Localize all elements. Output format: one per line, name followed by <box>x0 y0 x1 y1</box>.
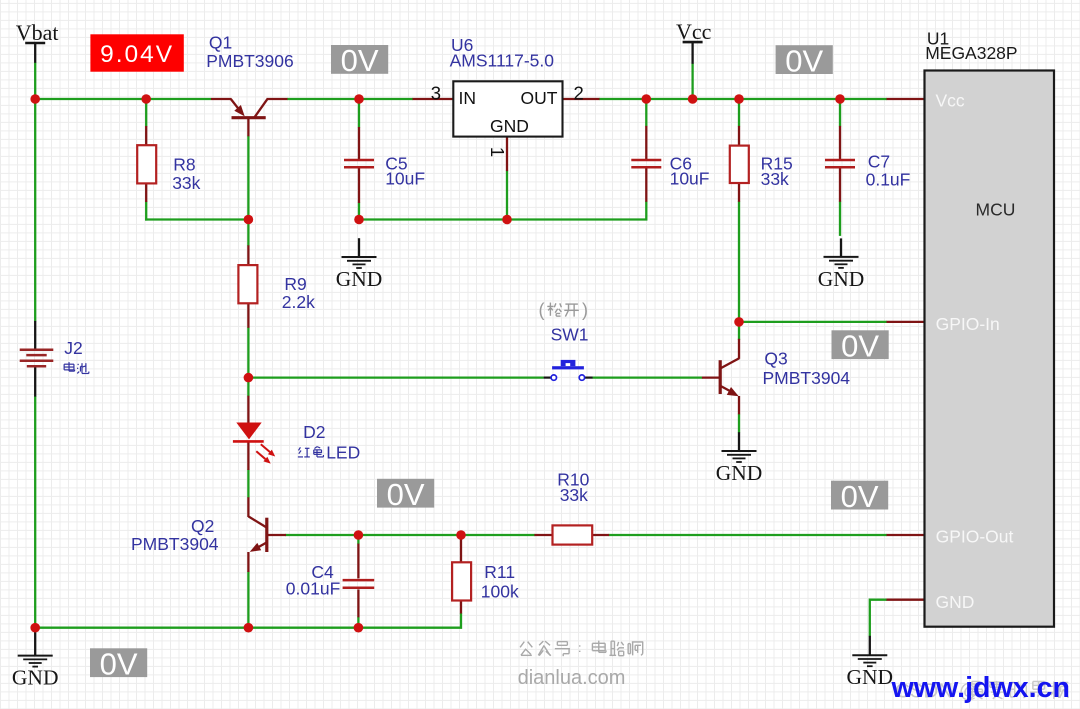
svg-text:IN: IN <box>459 88 477 108</box>
svg-text:OUT: OUT <box>521 88 558 108</box>
svg-text:Vcc: Vcc <box>676 19 712 44</box>
svg-text:GND: GND <box>12 666 59 690</box>
svg-text:10uF: 10uF <box>385 169 425 189</box>
svg-text:C7: C7 <box>868 152 890 172</box>
svg-text:SW1: SW1 <box>551 325 589 345</box>
svg-text:GND: GND <box>818 267 865 291</box>
svg-text:PMBT3904: PMBT3904 <box>763 368 851 388</box>
svg-text:0.1uF: 0.1uF <box>866 170 911 190</box>
svg-text:0V: 0V <box>341 43 379 78</box>
svg-text:GND: GND <box>336 267 383 291</box>
svg-text:R11: R11 <box>484 562 515 582</box>
svg-text:Q2: Q2 <box>191 516 214 536</box>
svg-text:PMBT3904: PMBT3904 <box>131 534 219 554</box>
svg-text:Q1: Q1 <box>209 32 232 52</box>
svg-text:GND: GND <box>490 116 529 136</box>
svg-text:0V: 0V <box>387 477 425 512</box>
svg-text:GPIO-Out: GPIO-Out <box>936 526 1014 546</box>
svg-text:GND: GND <box>847 665 894 689</box>
svg-text:J2: J2 <box>64 338 82 358</box>
svg-text:dianlua.com: dianlua.com <box>518 667 626 689</box>
svg-text:3: 3 <box>431 82 441 103</box>
svg-text:2: 2 <box>574 82 584 103</box>
svg-text:D2: D2 <box>303 422 325 442</box>
svg-text:0V: 0V <box>100 647 138 682</box>
svg-text:0V: 0V <box>841 479 879 514</box>
svg-text:33k: 33k <box>761 169 789 189</box>
svg-text:GND: GND <box>936 592 975 612</box>
svg-text:LED: LED <box>326 442 360 462</box>
svg-text:33k: 33k <box>172 173 200 193</box>
svg-text:AMS1117-5.0: AMS1117-5.0 <box>450 51 555 71</box>
svg-text:): ) <box>582 300 588 320</box>
svg-text:Vcc: Vcc <box>936 90 965 110</box>
svg-text:GND: GND <box>716 461 763 485</box>
svg-text:10uF: 10uF <box>670 169 710 189</box>
svg-text:2.2k: 2.2k <box>282 292 315 312</box>
svg-text:1: 1 <box>487 147 508 157</box>
svg-text:R8: R8 <box>173 155 195 175</box>
svg-text:33k: 33k <box>560 485 588 505</box>
svg-text:100k: 100k <box>481 581 519 601</box>
svg-text:Q3: Q3 <box>764 349 787 369</box>
svg-text:GPIO-In: GPIO-In <box>936 314 1000 334</box>
svg-text:9.04V: 9.04V <box>100 41 174 68</box>
svg-text:www.jdwx.cn: www.jdwx.cn <box>891 672 1070 704</box>
svg-text:(: ( <box>539 300 545 320</box>
svg-text:MCU: MCU <box>976 200 1016 220</box>
svg-text:PMBT3906: PMBT3906 <box>206 51 294 71</box>
svg-text:0V: 0V <box>785 43 823 78</box>
svg-text:0.01uF: 0.01uF <box>286 578 340 598</box>
svg-text:0V: 0V <box>841 329 879 364</box>
svg-text:Vbat: Vbat <box>16 20 59 45</box>
svg-text:MEGA328P: MEGA328P <box>925 43 1017 63</box>
